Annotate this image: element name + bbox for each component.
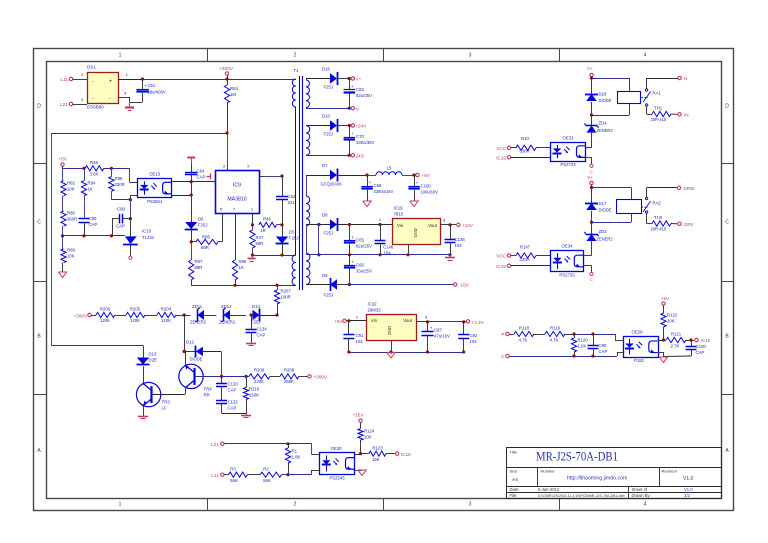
svg-text:F25J: F25J — [324, 293, 334, 298]
ground circle OE33 — [590, 164, 593, 174]
svg-text:D17: D17 — [599, 201, 607, 206]
terminal IC15 at OE30 — [395, 452, 411, 457]
svg-text:D9: D9 — [322, 273, 328, 278]
svg-text:4: 4 — [644, 53, 647, 59]
svg-text:1K: 1K — [239, 265, 244, 270]
capacitor C90 — [79, 216, 98, 236]
terminal +3.3V — [466, 320, 484, 325]
wire OE33 emitter — [586, 157, 592, 164]
svg-text:T1: T1 — [293, 68, 299, 73]
wire IC9 pin1 — [251, 213, 254, 226]
resistor R118 — [514, 326, 534, 343]
wire winding tap — [317, 225, 320, 257]
terminal V+ — [348, 77, 362, 82]
svg-text:ZENER2: ZENER2 — [597, 128, 614, 133]
relay contact DRW — [645, 188, 677, 214]
optocoupler OE34 — [551, 243, 584, 277]
wire OE28 emitter — [658, 352, 691, 357]
svg-text:L11: L11 — [211, 473, 219, 479]
title block MR-J2S-70A-DB1 — [507, 448, 722, 499]
svg-text:1: 1 — [119, 502, 122, 508]
wire TR4 collector to TR3 base — [152, 388, 186, 394]
svg-text:+15V: +15V — [353, 413, 365, 418]
power port +5V at OE28 — [661, 296, 670, 313]
svg-text:1M: 1M — [230, 92, 236, 97]
zener ZD3 — [585, 222, 614, 255]
svg-text:C160: C160 — [421, 184, 432, 189]
wire IC9 pin7 — [235, 213, 237, 260]
svg-text:R204: R204 — [161, 307, 172, 312]
svg-text:D: D — [37, 104, 41, 110]
svg-text:TH2: TH2 — [654, 215, 663, 220]
wire RA1 bottom — [592, 103, 630, 115]
svg-text:F25J: F25J — [324, 132, 334, 137]
wire RA2 bottom — [592, 214, 632, 223]
wire IC9 pin5 — [222, 213, 224, 242]
terminal +15V — [457, 223, 474, 228]
wire OE30 emitter — [355, 470, 362, 472]
svg-text:D2E: D2E — [149, 358, 157, 363]
svg-text:104: 104 — [356, 339, 364, 344]
capacitor C66 — [344, 255, 372, 286]
svg-text:+15V: +15V — [462, 223, 474, 228]
svg-text:C63: C63 — [356, 87, 364, 92]
svg-text:R87: R87 — [195, 259, 203, 264]
svg-text:TL431: TL431 — [142, 235, 155, 240]
diode D7 — [306, 163, 367, 187]
capacitor C100 — [686, 340, 707, 356]
svg-text:C: C — [590, 278, 593, 282]
capacitor C99 — [588, 332, 608, 356]
resistor R207 — [274, 285, 291, 316]
svg-text:68R: 68R — [201, 245, 209, 250]
svg-text:250K: 250K — [284, 379, 294, 384]
ground circle below TL431 — [129, 256, 132, 259]
optocoupler OE28 — [624, 330, 659, 364]
svg-text:104: 104 — [455, 243, 463, 248]
svg-text:PS2733: PS2733 — [559, 272, 575, 277]
svg-text:CAP: CAP — [89, 222, 98, 227]
transistor TR4 — [179, 364, 212, 397]
svg-text:66R: 66R — [256, 241, 264, 246]
svg-text:3.6K: 3.6K — [90, 172, 99, 177]
optocoupler OE30 — [320, 446, 355, 481]
wire zener node down — [183, 315, 186, 353]
svg-text:6-Jan-2012: 6-Jan-2012 — [538, 487, 560, 492]
resistor R94 — [81, 167, 96, 219]
svg-text:R3: R3 — [230, 467, 236, 472]
diode D17 — [585, 188, 612, 224]
svg-text:RA1: RA1 — [652, 91, 661, 96]
resistor R48 — [85, 160, 104, 177]
svg-text:R209: R209 — [284, 368, 295, 373]
capacitor C65 — [344, 225, 372, 255]
wire R119 to OE28 — [565, 332, 623, 340]
svg-text:OE30: OE30 — [331, 446, 343, 451]
wire V+ to RA1 — [592, 78, 630, 91]
wire primary switch row — [253, 255, 296, 257]
svg-text:A4: A4 — [512, 477, 518, 483]
svg-text:ZD3: ZD3 — [599, 229, 608, 234]
svg-text:+300V: +300V — [314, 375, 328, 380]
svg-text:DIODE: DIODE — [599, 98, 612, 103]
wire bottom cap row — [222, 413, 247, 415]
svg-text:DRV: DRV — [684, 222, 695, 227]
terminal IN — [678, 113, 689, 118]
thermistor TH1 — [647, 106, 678, 123]
resistor R87 — [189, 242, 203, 285]
svg-text:D10: D10 — [322, 114, 330, 119]
wire R206-R205 — [115, 315, 126, 317]
svg-text:R122: R122 — [667, 313, 678, 318]
svg-text:PS2733: PS2733 — [560, 162, 576, 167]
diode D14 — [249, 304, 277, 325]
diode D6 — [185, 217, 208, 244]
svg-text:IC15: IC15 — [496, 264, 506, 269]
power port V+ relay1 — [587, 66, 593, 80]
wire R118-R119 — [534, 334, 545, 336]
svg-text:82u/25V: 82u/25V — [356, 93, 372, 98]
power port V+ relay2 — [587, 175, 593, 189]
wire TR4 base right — [194, 375, 223, 378]
inductor L5 — [367, 166, 414, 176]
transformer T1 label — [293, 68, 299, 73]
relay RA1 — [618, 91, 662, 104]
svg-text:D13: D13 — [149, 352, 157, 357]
ground below R89 — [58, 272, 66, 278]
wire L11 to DS1 pin2 — [73, 72, 87, 80]
resistor R46 — [259, 217, 282, 233]
svg-text:D16: D16 — [322, 67, 330, 72]
svg-text:+5V: +5V — [58, 157, 67, 163]
svg-text:+5V: +5V — [334, 319, 343, 324]
svg-text:IN: IN — [684, 113, 689, 118]
svg-text:F25J: F25J — [324, 231, 334, 236]
capacitor C61 — [130, 77, 166, 102]
diode D16 — [306, 67, 349, 90]
svg-text:Vout: Vout — [428, 223, 438, 228]
svg-text:100u/10V: 100u/10V — [421, 190, 439, 195]
resistor R204 — [157, 307, 176, 324]
power port +300V left — [74, 313, 96, 318]
terminal L11 — [60, 77, 72, 83]
svg-text:R121: R121 — [671, 332, 682, 337]
wire IC19 Vout — [440, 218, 456, 227]
svg-text:C66: C66 — [356, 262, 364, 267]
capacitor C87 — [422, 322, 451, 352]
svg-text:C64: C64 — [197, 169, 205, 174]
svg-text:4.7K: 4.7K — [519, 338, 528, 343]
svg-text:N: N — [684, 76, 687, 81]
terminal V- — [351, 106, 360, 111]
svg-text:3300u/16V: 3300u/16V — [374, 189, 394, 194]
svg-text:D3SB60: D3SB60 — [87, 105, 104, 110]
diode D5 — [276, 230, 299, 257]
svg-text:DIODE: DIODE — [599, 207, 612, 212]
resistor R88 — [109, 168, 125, 199]
svg-text:2.7K: 2.7K — [671, 344, 680, 349]
capacitor C62 — [276, 176, 296, 237]
svg-text:360R: 360R — [67, 217, 77, 222]
zener ZD11 — [190, 304, 217, 325]
svg-text:20K: 20K — [667, 319, 675, 324]
power bar below R47 — [248, 255, 256, 262]
ground below OE28 — [659, 357, 667, 363]
wire R84 to IC9 pin3 — [223, 133, 228, 170]
resistor R147 — [516, 245, 551, 263]
wire V+ to RA2 — [592, 188, 632, 200]
power port +5V secondary — [412, 173, 430, 178]
capacitor C160 — [408, 175, 438, 201]
svg-text:330R: 330R — [115, 182, 125, 187]
svg-text:TR3: TR3 — [162, 400, 171, 405]
svg-text:CAP: CAP — [257, 333, 266, 338]
svg-text:IC9: IC9 — [233, 183, 241, 189]
svg-text:D6: D6 — [198, 217, 204, 222]
wire L21 to OE30 — [224, 442, 320, 454]
svg-text:10K: 10K — [67, 187, 75, 192]
terminal IC15 relay1 — [496, 155, 550, 160]
svg-text:C90: C90 — [89, 216, 97, 221]
svg-text:IC15: IC15 — [496, 155, 506, 160]
terminal L11 sense — [211, 473, 224, 479]
svg-text:+3.3V: +3.3V — [472, 320, 485, 325]
svg-text:OE28: OE28 — [632, 330, 644, 335]
terminal L21 — [60, 102, 73, 108]
terminal VCC relay2 — [496, 254, 516, 259]
transformer T1 core — [300, 76, 303, 290]
wire R204 to zeners — [176, 313, 191, 316]
svg-text:+300V: +300V — [74, 313, 88, 318]
svg-text:D7: D7 — [322, 163, 328, 168]
capacitor C64 — [185, 158, 205, 182]
wire TR4 node to R208 — [222, 376, 250, 378]
power port +5V — [58, 157, 67, 169]
svg-text:CAP: CAP — [228, 406, 237, 411]
wire C row — [509, 352, 623, 358]
svg-text:+5V: +5V — [661, 296, 670, 301]
svg-text:L5: L5 — [387, 166, 392, 171]
diode D18 — [585, 78, 612, 117]
optocoupler OE13 — [138, 172, 172, 204]
svg-text:Revision: Revision — [662, 469, 677, 474]
wire R88 to OE13 cathode — [111, 195, 137, 201]
wire D12 node down — [221, 351, 223, 376]
T1 secondary winding S1 — [306, 79, 324, 108]
T1 primary winding bottom — [292, 255, 296, 285]
svg-text:D:\C\MRJ2S\2011.11.1.10\PCB\MR: D:\C\MRJ2S\2011.11.1.10\PCB\MR-J2S-70A-D… — [538, 494, 625, 498]
svg-text:L21: L21 — [211, 442, 219, 448]
svg-text:10K: 10K — [364, 435, 372, 440]
capacitor C70 — [344, 126, 375, 157]
svg-text:1K: 1K — [88, 187, 93, 192]
svg-text:Number: Number — [541, 469, 556, 474]
svg-text:330R: 330R — [519, 257, 529, 262]
diode D9 — [306, 273, 350, 298]
svg-text:R207: R207 — [281, 289, 292, 294]
svg-text:F25J: F25J — [324, 85, 334, 90]
svg-text:R46: R46 — [263, 217, 271, 222]
svg-text:L21: L21 — [60, 102, 68, 108]
svg-text:R2: R2 — [263, 467, 269, 472]
svg-text:Size: Size — [510, 469, 519, 474]
svg-text:+300V: +300V — [219, 66, 234, 72]
svg-text:R48: R48 — [90, 160, 98, 165]
svg-text:IC15: IC15 — [401, 452, 411, 457]
svg-text:R124: R124 — [364, 429, 375, 434]
svg-text:1R: 1R — [260, 228, 266, 233]
terminal -15V — [454, 283, 470, 288]
svg-text:C135: C135 — [455, 237, 466, 242]
svg-text:D5: D5 — [289, 230, 295, 235]
wire +5V row — [63, 167, 130, 170]
wire -15V rail — [350, 284, 454, 286]
terminal N — [678, 76, 688, 81]
relay contact N — [645, 78, 677, 106]
svg-text:C133: C133 — [228, 382, 239, 387]
svg-text:Vout: Vout — [403, 318, 413, 323]
resistor R10 — [516, 136, 551, 154]
power port +300V right — [299, 375, 328, 380]
svg-text:D8: D8 — [322, 213, 328, 218]
svg-text:82u/25V: 82u/25V — [356, 244, 372, 249]
svg-text:R84: R84 — [230, 86, 238, 91]
svg-text:ZENER2: ZENER2 — [597, 237, 614, 242]
svg-text:VCC: VCC — [496, 146, 506, 151]
terminal C — [501, 354, 509, 359]
svg-text:CAP: CAP — [116, 224, 125, 229]
svg-text:D18: D18 — [599, 92, 607, 97]
svg-text:C134: C134 — [257, 327, 268, 332]
svg-text:TH1: TH1 — [654, 106, 663, 111]
svg-text:CAP: CAP — [696, 350, 705, 355]
wire OE28 collector — [658, 340, 664, 342]
power bar below R210 — [241, 413, 251, 418]
svg-text:C91: C91 — [356, 333, 364, 338]
resistor R47 — [250, 225, 264, 257]
svg-text:3: 3 — [469, 53, 472, 59]
svg-text:R123: R123 — [372, 445, 383, 450]
power port +300V — [219, 66, 234, 81]
wire V- rail — [306, 108, 351, 110]
svg-text:4.7K: 4.7K — [550, 338, 559, 343]
resistor R85 — [191, 235, 222, 251]
svg-text:ZENER2: ZENER2 — [219, 320, 236, 325]
capacitor C89 — [112, 200, 132, 236]
svg-text:220K: 220K — [254, 379, 264, 384]
svg-text:GCQ20A06: GCQ20A06 — [321, 182, 343, 187]
svg-text:C92: C92 — [470, 333, 478, 338]
svg-text:C87: C87 — [434, 328, 442, 333]
DS1 pin4 stub — [118, 91, 130, 103]
svg-text:C: C — [725, 220, 729, 226]
capacitor C146 — [375, 225, 394, 256]
voltage regulator IC19 7815 — [393, 206, 441, 255]
power bar below C135 — [445, 255, 455, 261]
svg-text:R94: R94 — [88, 181, 96, 186]
svg-text:CAP: CAP — [228, 388, 237, 393]
wire R208-R209 — [270, 376, 280, 378]
svg-text:LF: LF — [162, 406, 167, 411]
svg-text:+24V: +24V — [356, 124, 368, 129]
resistor R84 — [224, 79, 238, 133]
svg-text:68u/400V: 68u/400V — [147, 89, 166, 94]
capacitor C63 — [344, 79, 373, 110]
svg-text:20R-410: 20R-410 — [651, 227, 667, 232]
svg-text:C146: C146 — [383, 245, 394, 250]
svg-text:IC32: IC32 — [368, 302, 378, 307]
wire common rail — [306, 253, 450, 256]
svg-text:4: 4 — [644, 502, 647, 508]
svg-text:C132: C132 — [228, 400, 239, 405]
svg-text:PS2561: PS2561 — [147, 199, 163, 204]
svg-text:PS2545: PS2545 — [329, 475, 345, 480]
svg-text:29M33: 29M33 — [368, 308, 382, 313]
capacitor C68 — [361, 173, 393, 201]
resistor R1 — [285, 444, 300, 475]
svg-text:V+: V+ — [587, 175, 593, 180]
resistor R210 — [243, 375, 259, 413]
resistor R3 — [224, 467, 247, 484]
svg-text:OE33: OE33 — [563, 135, 575, 140]
svg-text:Drawn By:: Drawn By: — [632, 493, 651, 498]
wire OE30 collector — [355, 454, 361, 456]
svg-text:RR: RR — [204, 393, 210, 398]
resistor R206 — [96, 307, 115, 324]
resistor R121 — [664, 332, 695, 349]
svg-text:56K: 56K — [230, 478, 238, 483]
wire feedback row — [61, 234, 125, 237]
svg-text:Vin: Vin — [397, 223, 404, 228]
resistor R122 — [661, 313, 678, 342]
resistor R123 — [361, 445, 396, 462]
svg-text:R47: R47 — [256, 235, 264, 240]
svg-text:P: P — [501, 332, 504, 337]
wire +300V rail — [142, 79, 295, 81]
wire OE34 emitter — [584, 266, 592, 273]
svg-text:OE13: OE13 — [149, 172, 161, 177]
svg-text:R88: R88 — [115, 176, 123, 181]
resistor R2 — [260, 467, 281, 484]
svg-text:V1.0: V1.0 — [683, 476, 694, 482]
svg-text:GND: GND — [387, 326, 392, 335]
svg-text:R82: R82 — [67, 181, 75, 186]
svg-text:F25J: F25J — [198, 223, 208, 228]
terminal VCC relay1 — [496, 146, 516, 151]
resistor R89 — [61, 236, 76, 272]
sheet border frame with zone labels — [33, 49, 733, 511]
svg-text:http://lihaoming.jimdo.com: http://lihaoming.jimdo.com — [567, 476, 627, 482]
svg-text:R85: R85 — [202, 235, 210, 240]
svg-text:R147: R147 — [520, 245, 531, 250]
svg-text:P181: P181 — [634, 358, 645, 363]
svg-text:C65: C65 — [356, 238, 364, 243]
svg-text:68R: 68R — [195, 265, 203, 270]
svg-text:R119: R119 — [550, 326, 561, 331]
ground below C68 — [363, 201, 371, 207]
resistor R86 — [232, 259, 247, 285]
svg-text:R205: R205 — [130, 307, 141, 312]
resistor R119 — [545, 326, 565, 343]
T1 secondary winding S3 — [306, 175, 324, 226]
wire feedback bus — [52, 131, 229, 345]
DS1 pin1 stub — [118, 72, 142, 80]
svg-text:MR-J2S-70A-DB1: MR-J2S-70A-DB1 — [536, 450, 618, 464]
svg-text:Date:: Date: — [510, 487, 520, 492]
svg-text:120K: 120K — [161, 318, 171, 323]
wire L21 to DS1 pin3 — [73, 97, 87, 105]
svg-text:Sheet of: Sheet of — [632, 487, 648, 492]
